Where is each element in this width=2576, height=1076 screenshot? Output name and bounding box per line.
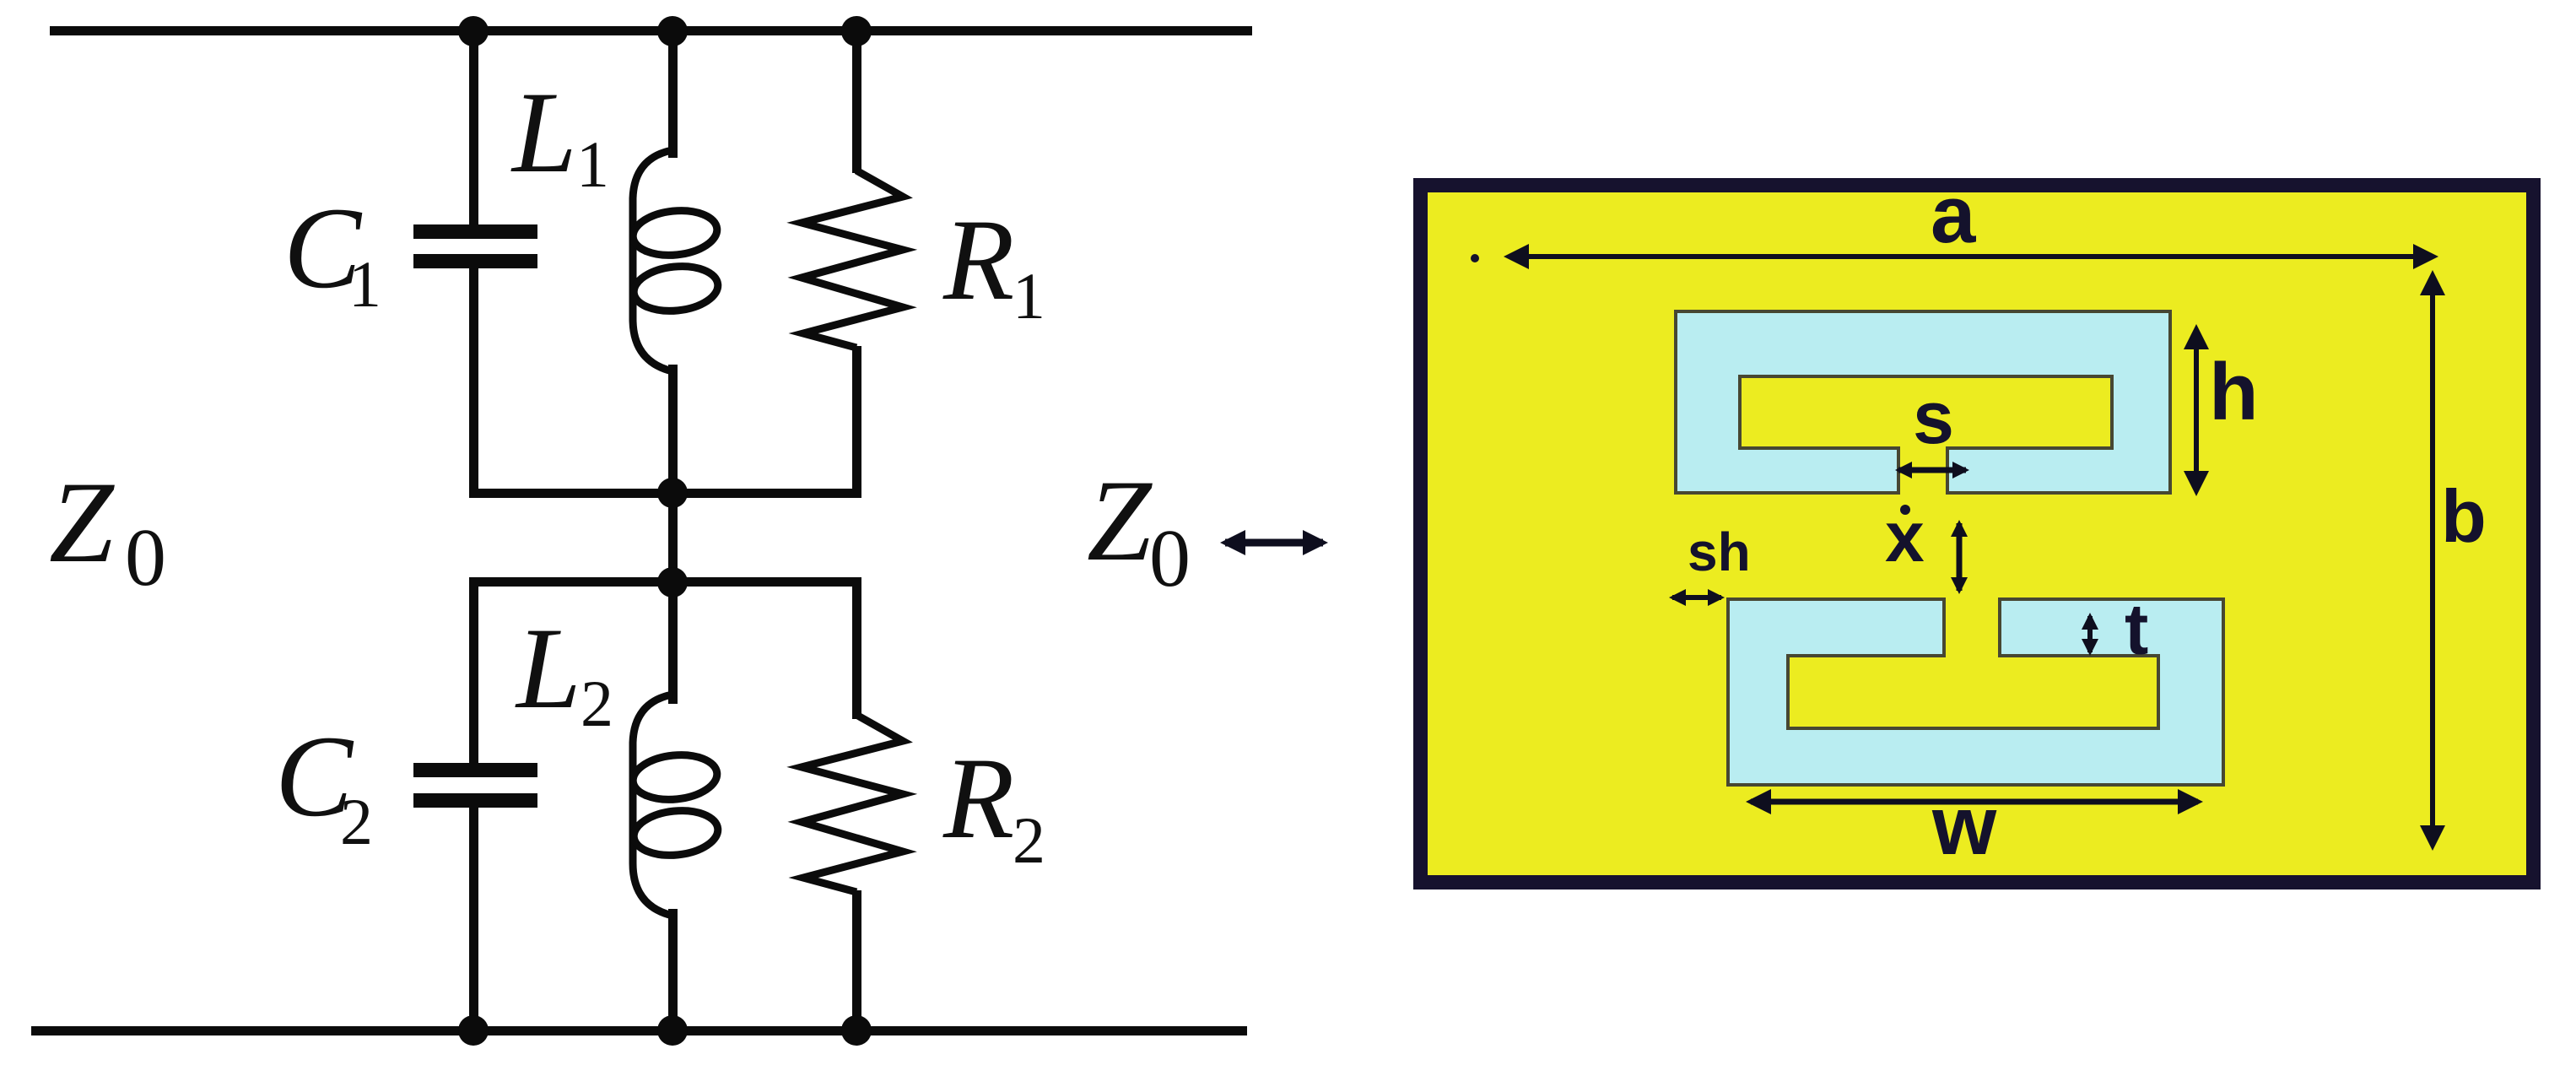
node mid lower bbox=[657, 567, 688, 597]
svg-text:h: h bbox=[2209, 347, 2259, 437]
wire L2 bottom lead bbox=[668, 909, 678, 1030]
resistor R1 bbox=[802, 170, 903, 348]
wire top bus bbox=[50, 26, 1252, 35]
svg-text:Z: Z bbox=[49, 457, 115, 587]
svg-text:2: 2 bbox=[1013, 803, 1045, 877]
svg-text:0: 0 bbox=[125, 512, 166, 603]
label C2 bbox=[275, 711, 373, 858]
svg-text:1: 1 bbox=[576, 127, 609, 201]
arrow w width bbox=[1751, 799, 2198, 805]
wire C1 top lead bbox=[469, 31, 478, 227]
wire R1 bottom lead bbox=[852, 346, 861, 497]
arrow sh shift bbox=[1672, 595, 1721, 600]
inductor L1 bbox=[631, 150, 721, 371]
wire C2 bottom lead bbox=[469, 808, 478, 1030]
svg-text:1: 1 bbox=[348, 247, 381, 321]
svg-text:R: R bbox=[942, 733, 1014, 862]
arrow t thickness bbox=[2087, 616, 2093, 652]
wire C1 bottom lead bbox=[469, 268, 478, 497]
arrow b height bbox=[2430, 275, 2435, 846]
svg-text:Z: Z bbox=[1087, 456, 1153, 585]
wire L2 top lead bbox=[668, 577, 678, 704]
svg-text:L: L bbox=[510, 68, 577, 197]
svg-text:b: b bbox=[2441, 474, 2487, 558]
label R1 bbox=[942, 195, 1045, 333]
arrow h height bbox=[2194, 329, 2199, 491]
label L1 bbox=[510, 68, 609, 201]
node mid upper bbox=[657, 478, 688, 508]
label x dotted bbox=[1885, 497, 1925, 576]
wire R2 bottom lead bbox=[852, 890, 861, 1030]
svg-text:a: a bbox=[1931, 170, 1976, 260]
node top-C1 bbox=[458, 16, 489, 46]
capacitor C2 bbox=[413, 763, 537, 808]
svg-text:2: 2 bbox=[340, 785, 373, 858]
label Z0 middle bbox=[1087, 456, 1191, 604]
node bottom-L2 bbox=[657, 1015, 688, 1046]
svg-text:0: 0 bbox=[1149, 513, 1191, 604]
arrow equivalence double-headed bbox=[1225, 539, 1323, 547]
wire bottom bus bbox=[31, 1026, 1247, 1035]
node a-arrow dot bbox=[1471, 254, 1479, 262]
capacitor C1 bbox=[413, 224, 537, 268]
inductor L2 bbox=[631, 695, 721, 916]
arrow x spacing bbox=[1957, 523, 1963, 591]
svg-text:t: t bbox=[2125, 590, 2148, 670]
svg-text:R: R bbox=[942, 195, 1014, 324]
substrate outer board bbox=[1413, 178, 2541, 889]
label R2 bbox=[942, 733, 1045, 877]
SRR top ring bbox=[1676, 311, 2170, 493]
wire section1 bottom rail bbox=[469, 489, 861, 498]
SRR bottom ring bbox=[1728, 599, 2223, 785]
svg-text:s: s bbox=[1913, 376, 1954, 459]
svg-text:L: L bbox=[515, 603, 581, 733]
label Z0 left bbox=[49, 457, 166, 603]
wire C2 top lead bbox=[469, 577, 478, 765]
wire R2 top lead bbox=[852, 577, 861, 719]
svg-text:1: 1 bbox=[1013, 259, 1045, 333]
svg-text:w: w bbox=[1931, 779, 1997, 872]
label C1 bbox=[284, 183, 381, 321]
node bottom-R2 bbox=[841, 1015, 872, 1046]
node top-R1 bbox=[841, 16, 872, 46]
wire L1 top lead bbox=[668, 31, 678, 158]
wire R1 top lead bbox=[852, 31, 861, 173]
node top-L1 bbox=[657, 16, 688, 46]
arrow s gap bbox=[1898, 468, 1966, 473]
arrow a width bbox=[1509, 254, 2433, 259]
svg-text:sh: sh bbox=[1688, 522, 1751, 582]
resistor R2 bbox=[802, 715, 903, 892]
wire mid link bbox=[668, 493, 678, 582]
node bottom-C2 bbox=[458, 1015, 489, 1046]
wire section2 top rail bbox=[469, 577, 861, 587]
svg-text:2: 2 bbox=[581, 667, 613, 740]
wire L1 bottom lead bbox=[668, 365, 678, 497]
label L2 bbox=[515, 603, 613, 740]
